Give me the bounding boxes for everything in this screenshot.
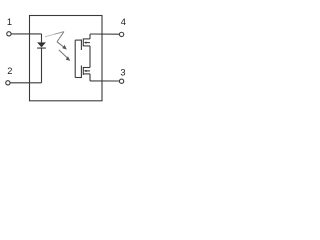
light arrow 2 head — [66, 56, 71, 61]
Q2 gate lead — [75, 77, 81, 79]
pin 1 terminal circle — [7, 32, 11, 36]
light arrow 1 zigzag — [45, 32, 64, 42]
Q2 gate bar — [80, 66, 82, 79]
Q1 drain riser to pin4 rail — [89, 34, 91, 39]
Q2 channel bar — [82, 67, 84, 75]
Q2 drain stub — [83, 73, 90, 75]
Q2 body line — [86, 70, 90, 72]
wire pin2 to LED cathode — [10, 82, 41, 84]
Q2 source stub — [83, 67, 90, 69]
wire LED anode vertical — [41, 34, 43, 43]
LED D1 triangle (anode) — [37, 42, 46, 47]
Q1 channel bar — [82, 38, 84, 46]
IC body box — [30, 16, 103, 101]
Q1 gate bar — [80, 39, 82, 50]
svg-text:4: 4 — [121, 17, 126, 27]
Q2 body arrow head — [84, 70, 87, 72]
Q1 body line — [86, 42, 90, 44]
light arrow 1 shaft — [57, 42, 64, 48]
pin 4 terminal circle — [119, 32, 123, 36]
common source vertical Q1-Q2 — [89, 46, 91, 68]
svg-text:3: 3 — [120, 68, 125, 78]
wire pin3 rail — [90, 80, 119, 82]
LED D1 cathode bar — [37, 48, 46, 49]
Q1 gate lead — [75, 39, 81, 41]
Q1 source stub — [83, 45, 90, 47]
gate rail vertical — [74, 40, 76, 77]
Q1 body arrow head — [84, 41, 87, 43]
svg-text:2: 2 — [7, 66, 12, 76]
pin 2 terminal circle — [6, 81, 10, 85]
wire pin1 to LED anode — [11, 33, 41, 35]
wire pin4 rail — [90, 33, 119, 35]
Q1 drain stub — [83, 38, 90, 40]
pin 3 terminal circle — [119, 79, 123, 83]
svg-text:1: 1 — [7, 17, 12, 27]
light arrow 1 head — [62, 45, 67, 50]
LED D1 cathode line down — [41, 48, 43, 82]
light arrow 2 shaft — [59, 50, 68, 58]
Q2 drain drop to pin3 rail — [89, 74, 91, 81]
